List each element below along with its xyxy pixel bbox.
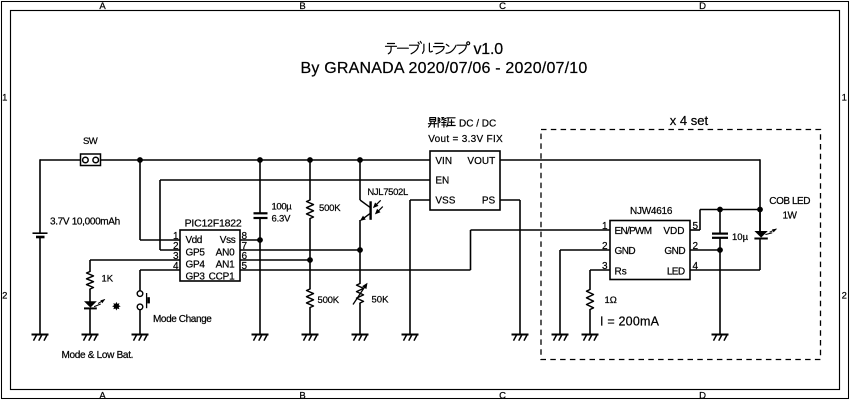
svg-text:1: 1 [602,221,608,232]
svg-text:GP5: GP5 [186,247,206,258]
svg-text:PS: PS [482,196,496,207]
svg-text:Mode & Low Bat.: Mode & Low Bat. [62,350,134,361]
svg-text:EN: EN [435,176,449,187]
svg-text:Vdd: Vdd [186,235,202,246]
svg-text:B: B [299,390,305,400]
svg-text:4: 4 [173,261,179,272]
svg-text:D: D [699,390,706,400]
svg-text:Rs: Rs [615,266,627,277]
svg-text:x 4 set: x 4 set [670,113,709,128]
svg-text:Vout = 3.3V FIX: Vout = 3.3V FIX [428,134,503,145]
svg-text:DC / DC: DC / DC [459,119,496,130]
svg-text:B: B [299,1,305,12]
svg-text:VIN: VIN [435,156,452,167]
svg-text:100µ: 100µ [272,202,293,213]
svg-text:1: 1 [842,92,847,103]
svg-text:EN/PWM: EN/PWM [615,226,652,237]
svg-text:Mode Change: Mode Change [153,314,212,325]
svg-text:2: 2 [842,290,847,301]
svg-text:2: 2 [2,290,7,301]
svg-text:SW: SW [83,136,98,147]
svg-text:10µ: 10µ [732,232,749,243]
svg-text:3: 3 [602,261,608,272]
svg-text:NJW4616: NJW4616 [630,206,673,217]
svg-text:C: C [499,390,506,400]
svg-text:6.3V: 6.3V [272,213,292,224]
svg-text:4: 4 [693,261,699,272]
svg-text:I = 200mA: I = 200mA [600,315,660,329]
svg-text:COB LED: COB LED [769,196,810,207]
svg-text:VDD: VDD [663,226,684,237]
svg-text:GND: GND [615,246,636,257]
svg-text:By GRANADA 2020/07/06 - 2020/0: By GRANADA 2020/07/06 - 2020/07/10 [301,60,588,77]
svg-text:AN0: AN0 [216,247,235,258]
svg-text:C: C [499,1,506,12]
svg-text:D: D [699,1,706,12]
svg-text:1W: 1W [783,211,798,222]
svg-text:PIC12F1822: PIC12F1822 [185,218,242,230]
svg-text:1Ω: 1Ω [605,295,617,306]
svg-text:A: A [99,390,106,400]
svg-text:LED: LED [667,266,685,277]
svg-text:5: 5 [242,261,248,272]
svg-text:VOUT: VOUT [467,156,495,167]
svg-text:500K: 500K [318,295,340,306]
svg-text:1K: 1K [102,274,114,285]
svg-text:NJL7502L: NJL7502L [367,187,408,198]
svg-text:500K: 500K [319,203,341,214]
svg-text:VSS: VSS [435,196,455,207]
svg-text:2: 2 [693,241,699,252]
svg-text:1: 1 [2,92,7,103]
svg-text:50K: 50K [372,295,390,306]
svg-text:3.7V 10,000mAh: 3.7V 10,000mAh [50,216,120,227]
svg-text:2: 2 [602,241,608,252]
svg-text:GND: GND [664,246,685,257]
svg-text:A: A [99,1,106,12]
svg-text:5: 5 [693,221,699,232]
svg-text:GP4: GP4 [186,259,206,270]
svg-text:AN1: AN1 [216,259,235,270]
svg-text:v1.0: v1.0 [474,41,504,58]
svg-text:CCP1: CCP1 [209,272,236,283]
svg-text:GP3: GP3 [186,272,206,283]
svg-text:Vss: Vss [220,235,236,246]
